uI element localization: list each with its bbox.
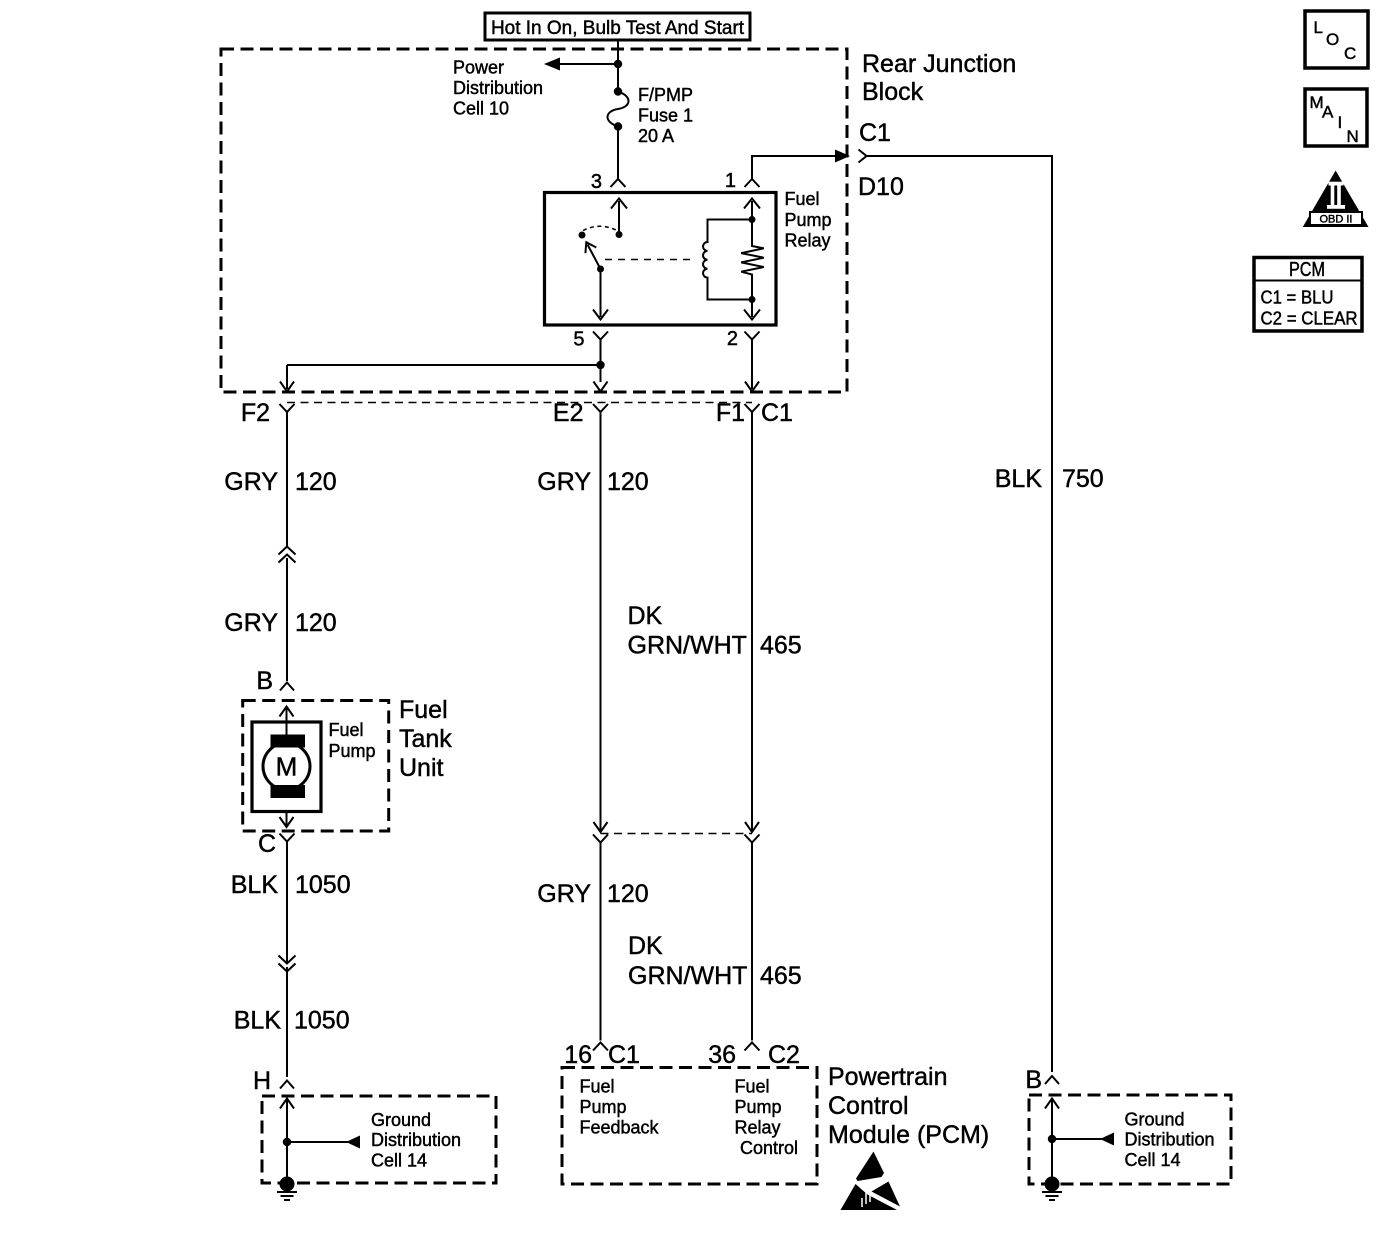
relay coil top node dot xyxy=(749,216,756,223)
svg-text:D10: D10 xyxy=(858,173,904,201)
wire: fuse to relay pin 3 xyxy=(617,127,619,180)
svg-text:C1: C1 xyxy=(608,1041,640,1069)
svg-text:20 A: 20 A xyxy=(638,126,674,146)
relay internal: pin 2 lead with down arrow xyxy=(744,300,760,320)
svg-text:Fuse 1: Fuse 1 xyxy=(638,106,693,126)
svg-text:C: C xyxy=(1344,44,1356,63)
svg-text:465: 465 xyxy=(760,962,802,990)
svg-text:DK: DK xyxy=(628,602,663,630)
svg-text:465: 465 xyxy=(760,632,802,660)
connector B chevron xyxy=(280,683,294,691)
svg-text:Hot In On, Bulb Test And Start: Hot In On, Bulb Test And Start xyxy=(491,18,745,39)
wire GRY 120 segment: F2 to inline break xyxy=(286,419,288,546)
svg-text:Tank: Tank xyxy=(399,725,452,753)
svg-text:3: 3 xyxy=(591,171,602,193)
svg-text:A: A xyxy=(1322,103,1334,122)
svg-text:I: I xyxy=(1338,113,1343,132)
ground wire with up arrow (right box) xyxy=(1045,1099,1059,1185)
Fuel Pump Relay box xyxy=(545,193,777,326)
wire BLK 1050 segment: C to break xyxy=(286,849,288,963)
pin 1 connector chevron xyxy=(745,179,760,187)
svg-text:GRY: GRY xyxy=(224,609,278,637)
wire GRY 120 segment: break to fuel tank unit B xyxy=(286,558,288,681)
svg-text:DK: DK xyxy=(628,932,663,960)
svg-text:120: 120 xyxy=(607,468,649,496)
OBD II symbol (triangle with pillar) xyxy=(1303,171,1369,228)
svg-text:Relay: Relay xyxy=(785,231,831,251)
connector H chevron xyxy=(280,1081,294,1089)
wire: motor to C with arrow xyxy=(280,812,294,828)
svg-text:120: 120 xyxy=(295,468,337,496)
PCM connector color legend table xyxy=(1254,258,1362,332)
relay switch travel arc (dashed) xyxy=(583,226,617,230)
svg-text:B: B xyxy=(256,667,273,695)
relay switch blade with arrow toward fixed contact xyxy=(585,242,600,269)
svg-text:Fuel: Fuel xyxy=(785,189,820,209)
svg-text:36: 36 xyxy=(708,1041,736,1069)
svg-text:1050: 1050 xyxy=(294,1007,350,1035)
svg-text:Control: Control xyxy=(740,1138,798,1158)
svg-text:GRY: GRY xyxy=(537,468,591,496)
svg-text:Control: Control xyxy=(828,1092,909,1120)
inline break chevrons (left wire) xyxy=(279,547,296,563)
svg-text:C1: C1 xyxy=(859,119,891,147)
ground wire with up arrow (left box) xyxy=(280,1099,294,1185)
junction block connector face (thin dashed) xyxy=(287,402,752,404)
wire: F2 drop with arrow at boundary xyxy=(280,365,294,392)
Rear Junction Block dashed boundary xyxy=(221,49,847,392)
svg-text:M: M xyxy=(276,752,298,782)
wire: branch left to F2 drop xyxy=(287,364,601,366)
connector chevron at PCM pin 16 C1 xyxy=(593,1043,608,1051)
wire: tap to cell reference arrow (right) xyxy=(1052,1138,1102,1140)
svg-text:C2: C2 xyxy=(768,1041,800,1069)
pin 5 connector chevron xyxy=(593,332,608,348)
wire from Hot feed down to fuse xyxy=(617,40,619,92)
Powertrain Control Module dashed box xyxy=(562,1068,817,1185)
svg-text:GRY: GRY xyxy=(224,468,278,496)
LOC legend box xyxy=(1305,11,1368,68)
svg-text:Rear Junction: Rear Junction xyxy=(862,50,1016,78)
connector chevron below inline connector (left wire) xyxy=(593,835,608,1041)
svg-text:Module (PCM): Module (PCM) xyxy=(828,1121,989,1149)
svg-text:Power: Power xyxy=(453,58,504,78)
arrow at rear junction block boundary (filled, pointing right) xyxy=(835,150,850,163)
svg-text:GRN/WHT: GRN/WHT xyxy=(628,632,747,660)
connector chevron at PCM pin 36 C2 xyxy=(745,1043,760,1051)
svg-text:BLK: BLK xyxy=(234,1007,282,1035)
connector E2 chevron xyxy=(593,404,608,419)
relay internal: pin 5 lead with down arrow xyxy=(593,269,608,320)
node: ground distribution tap dot (right) xyxy=(1048,1135,1056,1143)
wire: tap to Power Distribution arrow xyxy=(558,63,618,65)
svg-text:H: H xyxy=(253,1067,271,1095)
ESD sensitive device symbol xyxy=(841,1152,901,1211)
arrow to Ground Distribution cell (filled, pointing left, right box) xyxy=(1100,1133,1114,1146)
svg-text:F1: F1 xyxy=(716,399,745,427)
power feed label box: Hot In On, Bulb Test And Start xyxy=(485,13,750,40)
svg-text:Feedback: Feedback xyxy=(580,1118,660,1138)
motor armature circle with brushes xyxy=(263,735,310,799)
Ground Distribution Cell 14 dashed box (left) xyxy=(262,1096,496,1183)
svg-text:Pump: Pump xyxy=(735,1097,782,1117)
relay internal: dashed actuation link xyxy=(605,259,693,261)
svg-text:F2: F2 xyxy=(241,399,270,427)
svg-text:C: C xyxy=(258,830,276,858)
wire: relay pin 1 up and right to C1 D10 connector xyxy=(752,156,836,179)
svg-text:750: 750 xyxy=(1062,465,1104,493)
svg-text:120: 120 xyxy=(607,880,649,908)
connector chevron below inline connector (right wire) xyxy=(745,835,760,1041)
wire: tap to cell reference arrow (left) xyxy=(287,1141,348,1143)
svg-text:Unit: Unit xyxy=(399,754,444,782)
svg-text:Pump: Pump xyxy=(785,210,832,230)
svg-text:C2 = CLEAR: C2 = CLEAR xyxy=(1261,309,1358,329)
relay coil (inductor, left branch) xyxy=(703,220,752,300)
connector C chevron xyxy=(280,834,295,850)
svg-text:16: 16 xyxy=(564,1041,592,1069)
relay internal: pin 1 lead with up arrow xyxy=(744,199,760,220)
arrow to Power Distribution Cell 10 (filled, pointing left) xyxy=(544,58,560,71)
svg-text:Distribution: Distribution xyxy=(1125,1130,1215,1150)
arrow into fuel pump motor xyxy=(280,707,294,738)
wire: F1 down to inline connector, arrow at connector xyxy=(745,419,759,832)
wire BLK 1050 segment: break to H xyxy=(286,967,288,1077)
svg-text:1: 1 xyxy=(725,170,736,192)
relay switch common dot (pin 3 side) xyxy=(616,231,623,238)
svg-text:E2: E2 xyxy=(553,399,584,427)
relay coil suppression resistor (zigzag, right branch) xyxy=(741,220,764,300)
svg-text:1050: 1050 xyxy=(295,871,351,899)
node: junction dot at power distribution tap xyxy=(614,60,622,68)
MAIN legend box xyxy=(1305,89,1367,146)
svg-text:Ground: Ground xyxy=(371,1110,431,1130)
svg-text:BLK: BLK xyxy=(995,465,1043,493)
wire: E2 down to inline connector, arrow at connector xyxy=(594,419,608,832)
node: branch dot to F2 xyxy=(596,361,604,369)
svg-text:B: B xyxy=(1025,1066,1042,1094)
wire: C1 D10 to right column, down to PCM ground B xyxy=(867,156,1053,1072)
connector B chevron (right) xyxy=(1045,1076,1059,1084)
relay switch fixed contact dot xyxy=(579,232,586,239)
svg-text:O: O xyxy=(1326,30,1339,49)
svg-text:Fuel: Fuel xyxy=(735,1077,770,1097)
pin 3 connector chevron xyxy=(611,179,626,187)
connector F1 C1 chevron xyxy=(745,404,760,419)
svg-text:Cell 14: Cell 14 xyxy=(1125,1150,1181,1170)
ground symbol G (left): terminal dot and strokes xyxy=(277,1177,297,1201)
svg-text:Cell 14: Cell 14 xyxy=(371,1151,427,1171)
fuse F/PMP Fuse 1 20 A (S-curve element with terminal dots) xyxy=(607,87,628,130)
svg-text:L: L xyxy=(1314,18,1323,37)
connector C1 D10 chevron xyxy=(859,150,867,163)
svg-text:Powertrain: Powertrain xyxy=(828,1063,948,1091)
svg-text:BLK: BLK xyxy=(231,871,279,899)
svg-text:Ground: Ground xyxy=(1125,1110,1185,1130)
svg-text:Cell 10: Cell 10 xyxy=(453,99,509,119)
relay internal: pin 3 lead with up arrow xyxy=(611,199,627,235)
node: ground distribution tap dot (left) xyxy=(283,1138,291,1146)
relay coil bottom node dot xyxy=(749,296,756,303)
wire: pin 5 down to branch node xyxy=(600,347,602,382)
svg-text:F/PMP: F/PMP xyxy=(638,85,693,105)
svg-text:OBD II: OBD II xyxy=(1319,214,1352,226)
svg-text:PCM: PCM xyxy=(1289,259,1325,281)
svg-text:Block: Block xyxy=(862,78,924,106)
relay switch pivot dot (pin 5 side) xyxy=(597,266,604,273)
inline connector face (thin dashed, between E2 and F1 wires) xyxy=(601,833,753,835)
pin 2 connector chevron xyxy=(745,332,760,348)
svg-text:C1 = BLU: C1 = BLU xyxy=(1261,288,1334,308)
svg-text:2: 2 xyxy=(727,328,738,350)
arrow: E2 wire at boundary xyxy=(594,382,608,392)
svg-text:GRY: GRY xyxy=(537,880,591,908)
Ground Distribution Cell 14 dashed box (right) xyxy=(1029,1095,1231,1184)
Fuel Tank Unit dashed box xyxy=(243,701,389,832)
svg-text:Pump: Pump xyxy=(580,1097,627,1117)
svg-text:N: N xyxy=(1347,127,1359,146)
svg-text:Distribution: Distribution xyxy=(453,78,543,98)
svg-text:120: 120 xyxy=(295,609,337,637)
fuel pump motor case xyxy=(252,722,321,812)
svg-text:Distribution: Distribution xyxy=(371,1130,461,1150)
svg-text:Pump: Pump xyxy=(329,741,376,761)
svg-text:GRN/WHT: GRN/WHT xyxy=(628,962,747,990)
svg-text:C1: C1 xyxy=(761,399,793,427)
arrow to Ground Distribution cell (filled, pointing left) xyxy=(346,1136,360,1149)
svg-text:Relay: Relay xyxy=(735,1118,781,1138)
ground symbol G (right): terminal dot and strokes xyxy=(1042,1177,1062,1201)
svg-text:Fuel: Fuel xyxy=(329,720,364,740)
wire: pin 2 down to boundary with arrow xyxy=(745,347,759,392)
inline break chevrons (left wire, lower) xyxy=(279,956,296,972)
svg-text:5: 5 xyxy=(573,329,584,351)
connector F2 chevron xyxy=(280,404,295,419)
svg-text:Fuel: Fuel xyxy=(580,1077,615,1097)
svg-text:Fuel: Fuel xyxy=(399,696,448,724)
